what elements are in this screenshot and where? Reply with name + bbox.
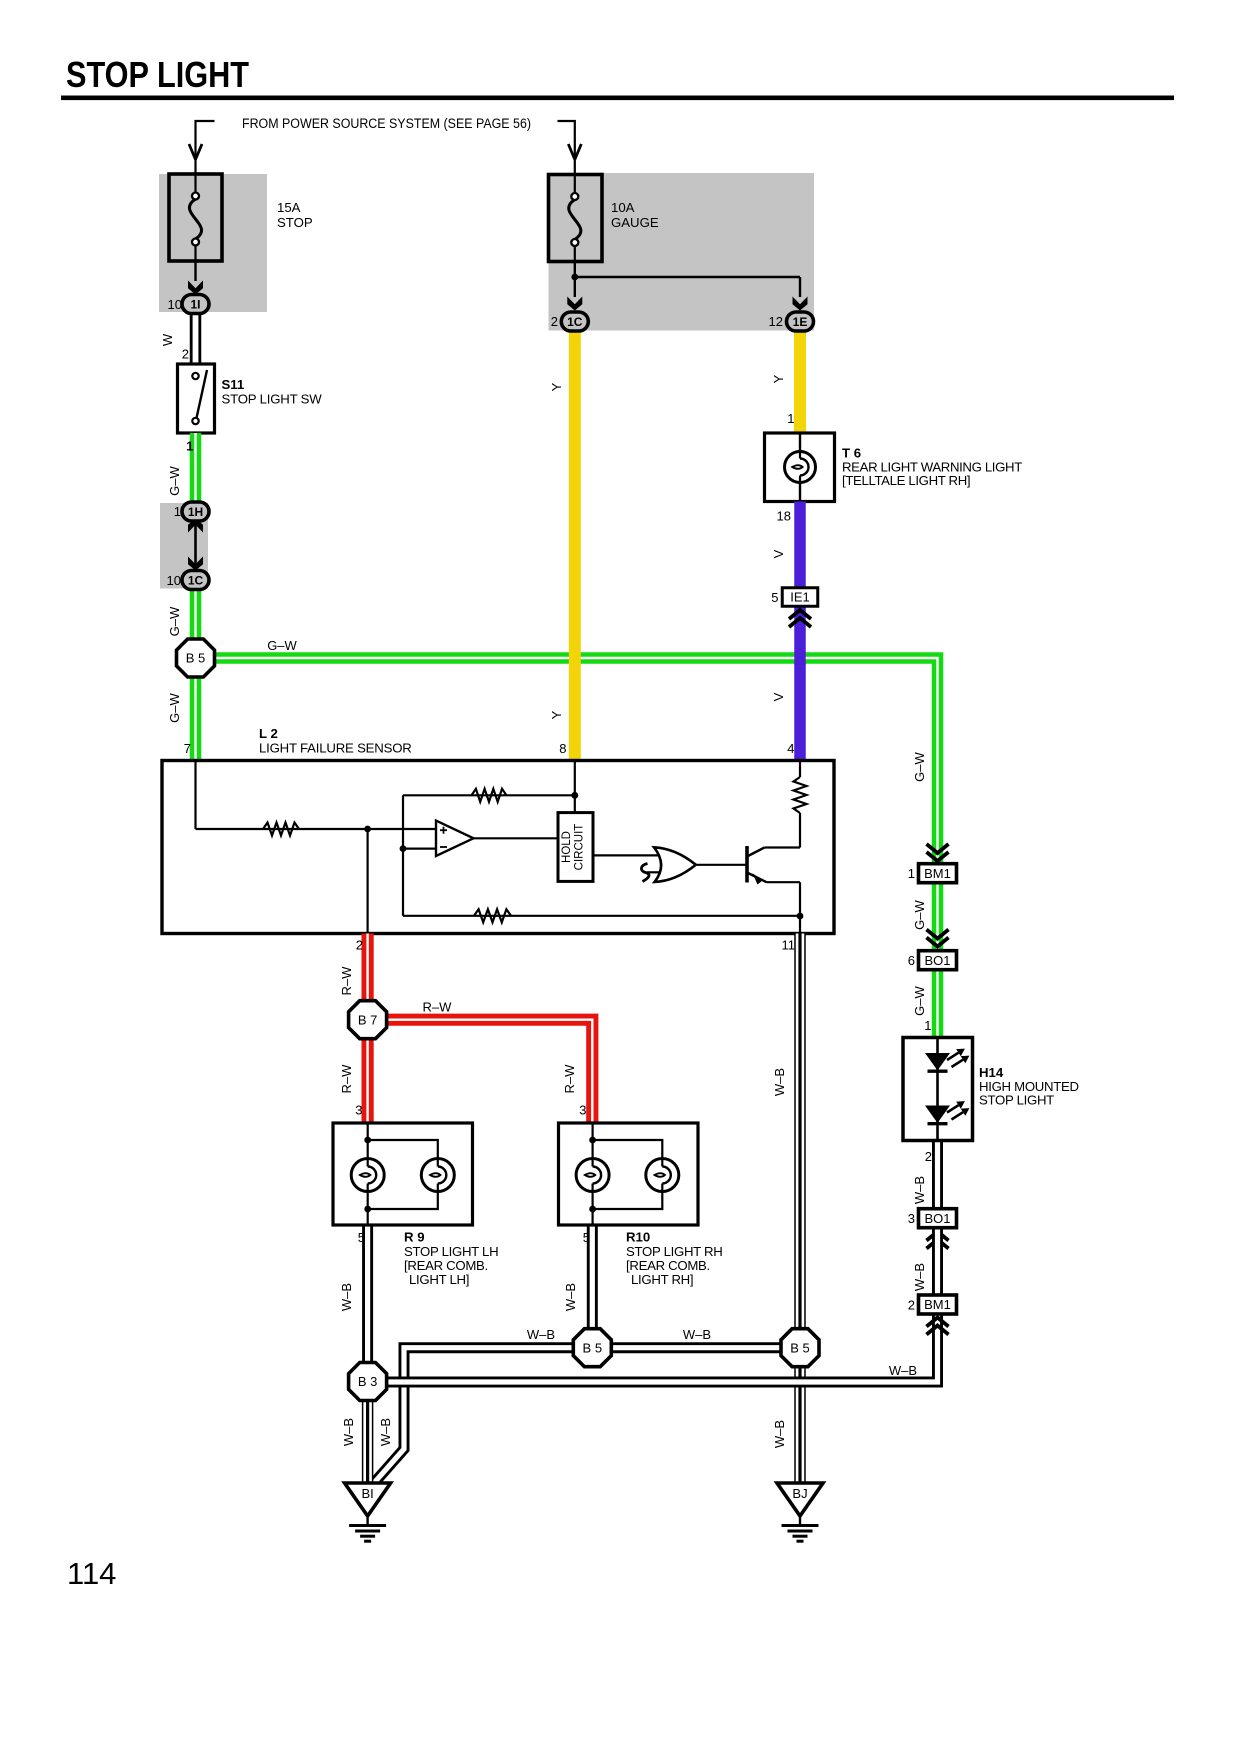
svg-text:W–B: W–B	[378, 1418, 393, 1446]
svg-text:15A: 15A	[277, 200, 301, 215]
svg-text:W–B: W–B	[341, 1418, 356, 1446]
svg-text:V: V	[771, 549, 786, 558]
svg-text:G–W: G–W	[912, 899, 927, 929]
svg-text:STOP LIGHT SW: STOP LIGHT SW	[222, 392, 323, 407]
svg-text:CIRCUIT: CIRCUIT	[574, 824, 586, 871]
svg-text:W–B: W–B	[339, 1283, 354, 1311]
svg-text:GAUGE: GAUGE	[611, 215, 659, 230]
svg-text:BI: BI	[361, 1486, 373, 1501]
svg-text:BO1: BO1	[924, 1211, 950, 1226]
svg-text:12: 12	[769, 314, 783, 329]
svg-text:1: 1	[924, 1018, 931, 1033]
svg-text:G–W: G–W	[167, 692, 182, 722]
svg-text:LIGHT RH]: LIGHT RH]	[631, 1272, 693, 1287]
svg-text:R 9: R 9	[404, 1230, 425, 1245]
svg-text:W: W	[160, 333, 175, 346]
svg-text:[TELLTALE LIGHT RH]: [TELLTALE LIGHT RH]	[842, 473, 970, 488]
svg-text:11: 11	[782, 938, 796, 953]
svg-text:3: 3	[908, 1211, 915, 1226]
svg-text:V: V	[771, 692, 786, 701]
svg-text:R–W: R–W	[423, 1000, 453, 1015]
svg-text:3: 3	[355, 1103, 362, 1118]
svg-text:G–W: G–W	[267, 638, 297, 653]
svg-text:G–W: G–W	[912, 751, 927, 781]
svg-text:W–B: W–B	[912, 1263, 927, 1291]
svg-text:1: 1	[787, 411, 794, 426]
svg-text:BO1: BO1	[924, 953, 950, 968]
svg-text:G–W: G–W	[167, 465, 182, 495]
svg-text:STOP LIGHT RH: STOP LIGHT RH	[626, 1244, 723, 1259]
svg-text:[REAR COMB.: [REAR COMB.	[626, 1258, 710, 1273]
svg-text:1E: 1E	[793, 315, 808, 329]
svg-text:S11: S11	[222, 377, 245, 392]
svg-text:W–B: W–B	[912, 1176, 927, 1204]
svg-text:W–B: W–B	[527, 1327, 555, 1342]
svg-text:10: 10	[168, 297, 182, 312]
svg-text:W–B: W–B	[772, 1420, 787, 1448]
svg-text:G–W: G–W	[167, 606, 182, 636]
svg-text:4: 4	[787, 741, 794, 756]
svg-text:STOP LIGHT: STOP LIGHT	[979, 1093, 1054, 1108]
svg-text:1: 1	[186, 439, 193, 454]
svg-text:STOP LIGHT LH: STOP LIGHT LH	[404, 1244, 498, 1259]
svg-text:2: 2	[908, 1298, 915, 1313]
svg-text:R10: R10	[626, 1230, 650, 1245]
svg-text:8: 8	[559, 741, 566, 756]
svg-text:W–B: W–B	[683, 1327, 711, 1342]
svg-text:B 5: B 5	[583, 1340, 603, 1355]
svg-text:B 5: B 5	[186, 651, 206, 666]
svg-text:18: 18	[777, 509, 791, 524]
svg-text:2: 2	[356, 938, 363, 953]
svg-text:Y: Y	[771, 374, 786, 383]
svg-text:[REAR COMB.: [REAR COMB.	[404, 1258, 488, 1273]
svg-text:5: 5	[358, 1230, 365, 1245]
svg-text:W–B: W–B	[889, 1363, 917, 1378]
svg-text:R–W: R–W	[339, 1064, 354, 1094]
svg-text:2: 2	[182, 347, 189, 362]
svg-text:IE1: IE1	[790, 590, 810, 605]
svg-text:5: 5	[771, 590, 778, 605]
svg-text:2: 2	[925, 1149, 932, 1164]
svg-text:T 6: T 6	[842, 446, 861, 461]
svg-text:R–W: R–W	[339, 966, 354, 996]
svg-text:1C: 1C	[567, 315, 583, 329]
svg-text:FROM POWER SOURCE SYSTEM (SEE: FROM POWER SOURCE SYSTEM (SEE PAGE 56)	[242, 116, 531, 131]
svg-text:6: 6	[908, 953, 915, 968]
svg-text:STOP LIGHT: STOP LIGHT	[66, 54, 249, 95]
svg-text:BM1: BM1	[924, 1297, 951, 1312]
svg-text:1: 1	[174, 504, 181, 519]
svg-text:W–B: W–B	[772, 1068, 787, 1096]
svg-text:LIGHT FAILURE SENSOR: LIGHT FAILURE SENSOR	[259, 741, 412, 756]
svg-text:HOLD: HOLD	[561, 831, 573, 863]
svg-text:Y: Y	[549, 382, 564, 391]
svg-text:10A: 10A	[611, 200, 635, 215]
svg-text:114: 114	[67, 1556, 116, 1591]
svg-text:1: 1	[908, 866, 915, 881]
svg-text:Y: Y	[549, 710, 564, 719]
svg-text:7: 7	[184, 741, 191, 756]
svg-text:B 7: B 7	[358, 1012, 378, 1027]
svg-text:BM1: BM1	[924, 866, 951, 881]
svg-text:5: 5	[583, 1230, 590, 1245]
svg-text:L 2: L 2	[259, 726, 278, 741]
svg-text:R–W: R–W	[562, 1064, 577, 1094]
svg-text:BJ: BJ	[792, 1486, 807, 1501]
svg-text:1H: 1H	[188, 505, 203, 519]
svg-text:3: 3	[579, 1103, 586, 1118]
svg-text:LIGHT LH]: LIGHT LH]	[409, 1272, 469, 1287]
svg-text:1C: 1C	[188, 573, 204, 587]
svg-text:B 3: B 3	[358, 1374, 378, 1389]
svg-text:1I: 1I	[190, 297, 200, 311]
svg-text:W–B: W–B	[563, 1283, 578, 1311]
svg-text:H14: H14	[979, 1065, 1004, 1080]
svg-text:10: 10	[167, 573, 181, 588]
svg-text:G–W: G–W	[912, 985, 927, 1015]
svg-text:STOP: STOP	[277, 215, 313, 230]
svg-text:B 5: B 5	[790, 1340, 810, 1355]
svg-text:2: 2	[551, 314, 558, 329]
